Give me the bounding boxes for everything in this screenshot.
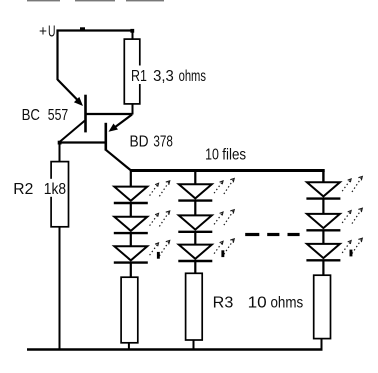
light arrows D9: [342, 238, 362, 253]
wire lead from bus: [194, 171, 196, 185]
base bar: [84, 95, 87, 133]
resistor R2: [51, 162, 68, 227]
wire: [130, 233, 132, 246]
wire R1 top lead: [132, 31, 134, 40]
wire LED supply bus: [131, 169, 325, 172]
emitter arrowhead: [109, 124, 119, 132]
svg-text:378: 378: [153, 134, 173, 151]
emitter wire from +U: [58, 80, 79, 102]
bold tick on D9 arrow: [350, 250, 353, 257]
wire +U vertical: [56, 30, 58, 81]
base wire to R1 node: [86, 113, 133, 115]
LED string column 2: [178, 171, 234, 350]
svg-text:10: 10: [205, 146, 219, 163]
wire lead from bus: [130, 171, 132, 187]
resistor R3c: [314, 275, 331, 338]
wire dashed continuation between strings: [245, 233, 299, 236]
wire bus corner down to column 3: [322, 171, 324, 182]
LED D6: [178, 245, 212, 261]
bold tick on D3 arrow: [157, 252, 160, 259]
wire: [194, 201, 196, 215]
wire to R3: [130, 263, 132, 278]
emitter arrowhead: [74, 97, 83, 106]
collector wire: [60, 121, 85, 142]
svg-text:U: U: [48, 23, 56, 40]
wire: [322, 231, 324, 244]
svg-text:ohms: ohms: [271, 294, 304, 311]
LED D2: [114, 217, 148, 233]
node base/collector junction: [58, 141, 62, 145]
wire node to BD378 base: [58, 141, 106, 143]
value label R1 background: [130, 66, 208, 85]
transistor Q1 BC557: [58, 80, 133, 143]
base bar: [105, 123, 108, 151]
svg-text:files: files: [222, 146, 246, 163]
svg-text:557: 557: [48, 107, 68, 124]
wire to R3: [194, 261, 196, 273]
LED D3: [114, 246, 148, 262]
ground rail: [27, 348, 323, 350]
light arrows D5: [214, 210, 234, 225]
LED D7: [306, 182, 340, 198]
wire R3a to ground: [128, 343, 130, 350]
resistor R3a: [121, 277, 138, 343]
svg-text:R1: R1: [131, 68, 147, 85]
svg-text:10: 10: [248, 294, 267, 311]
bold tick on D6 arrow: [221, 250, 224, 257]
wire R1 bottom lead: [132, 104, 134, 115]
LED string column 3: [306, 177, 362, 350]
svg-text:+: +: [39, 24, 47, 40]
wire R3c to ground: [321, 339, 323, 350]
svg-text:R2: R2: [13, 181, 33, 198]
light arrows D4: [214, 179, 234, 194]
LED D8: [306, 214, 340, 230]
svg-text:3,3: 3,3: [153, 68, 174, 85]
svg-text:R3: R3: [213, 294, 234, 311]
wire R2 top lead: [59, 143, 61, 163]
light arrows D3: [150, 241, 170, 256]
resistor R3b: [186, 273, 203, 340]
light arrows D1: [150, 181, 170, 196]
junction nub on top wire: [80, 27, 85, 30]
wire top horizontal: [57, 29, 134, 31]
emitter wire from R1 node: [115, 115, 133, 128]
resistor R1: [124, 39, 140, 104]
LED D5: [178, 215, 212, 231]
wire to R3: [322, 261, 324, 276]
svg-text:ohms: ohms: [179, 68, 206, 85]
wire cut-off text remnants top edge: [27, 0, 164, 1]
light arrows D2: [150, 211, 170, 226]
collector wire to bus: [106, 150, 131, 171]
light arrows D7: [342, 177, 362, 192]
LED string column 1: [114, 171, 170, 350]
light arrows D8: [342, 208, 362, 223]
svg-text:BC: BC: [22, 107, 40, 124]
LED D4: [178, 184, 212, 200]
transistor Q2 BD378: [106, 115, 132, 171]
node junction dot at R1 top: [130, 29, 134, 33]
svg-text:BD: BD: [130, 134, 149, 151]
LED D1: [114, 187, 148, 203]
wire: [322, 199, 324, 214]
value label R2 background: [12, 179, 67, 197]
wire: [194, 232, 196, 244]
LED D9: [306, 244, 340, 260]
wire: [130, 203, 132, 216]
svg-text:1k8: 1k8: [44, 181, 66, 198]
wire R2 bottom lead to ground: [59, 227, 61, 350]
wire R3b to ground: [193, 340, 195, 350]
light arrows D6: [214, 239, 234, 254]
